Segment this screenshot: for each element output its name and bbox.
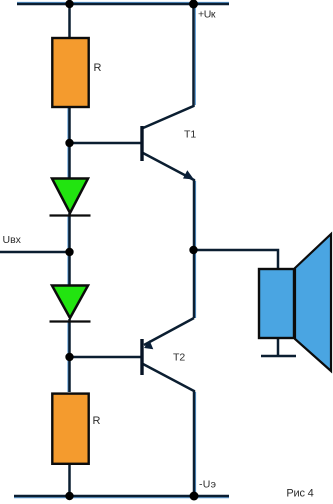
svg-text:Рис 4: Рис 4: [286, 487, 313, 499]
svg-text:T1: T1: [184, 128, 196, 140]
node: +Uk junction: [189, 0, 198, 9]
wire: output node to speaker: [194, 250, 279, 268]
wire: +Uk vertical to T1 collector: [143, 4, 194, 128]
node: T1 base junction: [65, 139, 73, 147]
resistor R2: [52, 394, 88, 464]
node: input junction: [65, 248, 73, 256]
wire: top rail blue fringe: [17, 2, 229, 4]
node: rail/T2 junction: [190, 492, 199, 501]
svg-text:Uвх: Uвх: [3, 234, 22, 246]
diode D2: [50, 286, 91, 322]
wire: T1 emitter to output node: [143, 153, 194, 318]
svg-text:-Uэ: -Uэ: [199, 479, 216, 491]
node: rail/R2 junction: [65, 492, 73, 500]
wire: bottom rail blue fringe: [14, 497, 229, 499]
ground: [261, 355, 296, 358]
diode D1: [50, 179, 91, 216]
wire: input Uvx: [0, 251, 70, 254]
wire: T2 collector down to rail: [143, 364, 194, 496]
wire: D2 cathode to R2 top: [68, 319, 71, 392]
node: T2 base junction: [65, 353, 73, 361]
svg-text:R: R: [93, 415, 101, 427]
wire: R2 bottom to rail: [68, 465, 71, 496]
transistor T1: [142, 126, 194, 180]
wire: T1 base wire: [70, 142, 142, 145]
wire: rail to R1 top: [68, 4, 71, 37]
svg-text:+Uк: +Uк: [198, 8, 216, 20]
svg-text:R: R: [94, 62, 102, 74]
wire: speaker bottom stub: [277, 339, 280, 356]
node: output junction: [189, 246, 197, 254]
speaker: [259, 234, 331, 371]
wire: left column blue fringe: [67, 108, 69, 178]
node: rail/R1 junction: [65, 0, 73, 8]
wire: bottom supply rail -Ue: [14, 495, 229, 498]
wire: T2 base wire: [70, 356, 142, 359]
wire: output node to T2 emitter: [144, 318, 194, 345]
svg-text:T2: T2: [173, 351, 185, 363]
wire: D1 cathode to D2 anode: [68, 213, 71, 286]
wire: R1 bottom to diode D1: [68, 108, 71, 179]
transistor T2: [142, 339, 153, 375]
resistor R1: [52, 38, 88, 107]
wire: right column blue fringe: [194, 6, 196, 105]
wire: top supply rail +Uk: [17, 3, 229, 6]
